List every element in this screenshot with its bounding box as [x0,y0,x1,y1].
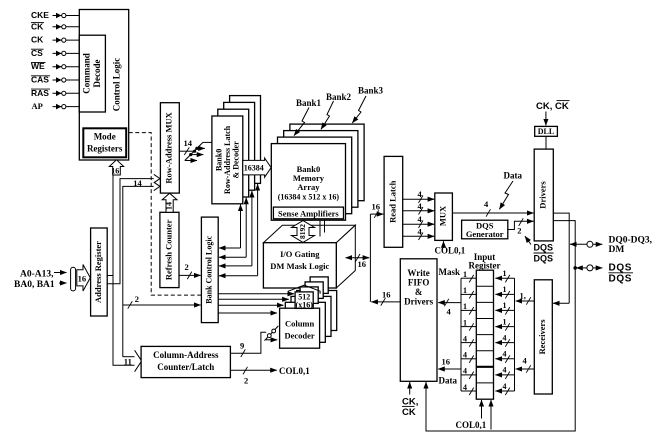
column decoder bank0 U13 [280,308,320,348]
svg-text:14: 14 [184,138,193,148]
label DQ0-DQ3 DM [609,236,653,255]
svg-text:4: 4 [503,366,507,375]
svg-text:4: 4 [463,334,467,343]
junction dqs [573,266,577,270]
wire riser A to counter [113,276,135,366]
svg-text:1: 1 [503,269,507,278]
pin WE# [31,61,46,71]
svg-text:4: 4 [463,383,467,392]
svg-text:Receivers: Receivers [537,319,547,355]
svg-text:MUX: MUX [438,205,448,226]
wire register in 1 [495,269,514,282]
svg-text:CK,: CK, [402,396,418,407]
svg-text:1: 1 [463,270,467,279]
wire read latch out 3 [403,214,435,228]
bus pill symbol [71,267,76,291]
svg-text:Bank1: Bank1 [296,98,322,108]
wire CK# [53,26,80,28]
pin CS# [31,48,44,58]
wire register in 7 [495,366,514,379]
buffer CAS# [56,77,66,83]
svg-text:Data: Data [439,376,458,386]
svg-text:16: 16 [111,167,119,176]
command decode U2 [79,35,105,112]
wire COL01 into register 1 [481,400,483,419]
bank control logic U8 [201,217,218,323]
column decoder stack bank3 [297,291,337,331]
svg-text:(x16): (x16) [296,300,314,309]
svg-text:1: 1 [463,318,467,327]
label DQS pair pads [609,263,634,285]
svg-text:Drivers: Drivers [404,297,433,307]
svg-text:1,: 1, [520,291,526,301]
label Data [504,171,523,181]
memory stack bank3 [290,124,364,201]
svg-text:Column: Column [285,319,315,329]
buffer CKE [56,13,66,19]
wire BA0 BA1 [59,282,67,284]
dll U18 [535,126,558,136]
svg-text:CK: CK [402,407,416,418]
write fifo U20 [400,259,437,382]
node chevron row mux in 2 [154,182,160,190]
label DQS pair drivers [534,243,554,264]
svg-text:1: 1 [463,286,467,295]
wire dll to drivers [545,136,547,149]
wire read latch out 1 [403,189,435,203]
wire data vertical [369,214,371,302]
svg-text:2: 2 [244,376,248,386]
wire column select 1 [218,293,294,295]
wire fanout branch 4 [185,160,197,162]
wire COL01 into mux [443,241,445,248]
wire column select 4 [218,312,277,314]
reg512 stack bank3 [310,277,328,294]
pin CAS# [31,75,50,85]
wire register in 3 [495,301,514,314]
svg-text:16: 16 [382,290,391,300]
svg-text:Mask: Mask [439,267,461,277]
svg-text:Array: Array [297,182,320,192]
svg-text:DM Mask Logic: DM Mask Logic [270,261,329,271]
wire 14 mux to row latch [179,138,194,155]
svg-text:2: 2 [185,262,189,272]
svg-text:14: 14 [165,202,174,210]
wire bank select 4 [219,184,258,276]
wire register out 2 [461,286,476,298]
wire riser C to counter [123,356,135,358]
svg-text:DQS: DQS [609,273,632,284]
label Data fifo [439,376,458,386]
row latch stack bank2 [224,102,255,190]
svg-text:DLL: DLL [538,127,554,136]
column address counter U7 [141,346,230,377]
svg-text:Counter/Latch: Counter/Latch [157,362,214,372]
wire riser C to row mux [123,186,154,356]
wire column select 2 [218,298,289,300]
label CK CK# top [536,101,570,112]
wire column select 3 [218,304,283,306]
wire 1 receivers to register [516,291,535,305]
svg-text:I/O Gating: I/O Gating [280,249,320,259]
wire register out 6 [461,351,476,363]
svg-text:COL0,1: COL0,1 [279,366,310,376]
wire register in 4 [495,317,514,330]
label Bank3 [358,86,384,96]
wire register in 6 [495,350,514,363]
wire address bus riser A [107,175,113,276]
svg-text:& Decoder: & Decoder [232,141,241,179]
drivers U19 [534,149,553,241]
pin AP [32,101,43,111]
wire 16 from write fifo [371,290,400,306]
node chevron counter in [135,350,142,371]
svg-text:2: 2 [517,226,521,236]
row latch stack bank1 [218,109,249,197]
buffer CK# [56,24,66,30]
buffer AP [56,104,66,110]
svg-text:Decode: Decode [92,60,102,88]
pad DQ [587,241,593,247]
bus arrow 8192 [292,221,315,243]
svg-text:1: 1 [503,301,507,310]
mux U16 [435,193,453,240]
wire register in 5 [495,333,514,346]
wire 4 receivers to register [516,355,535,372]
svg-text:8192: 8192 [298,224,307,239]
wire 9 counter to column decoder [230,332,266,357]
junction dots fanout [189,147,198,156]
wire dq pad right [593,243,602,245]
svg-text:Generator: Generator [466,229,504,239]
wire read latch out 4 [403,226,435,240]
svg-text:Drivers: Drivers [538,181,548,209]
svg-text:Data: Data [504,171,523,181]
svg-text:AP: AP [32,101,43,111]
memory array bank0 U10 [271,144,345,221]
wire dqs pad left [576,267,587,269]
wire CK [53,39,80,41]
wire 16 io gating data bus [346,254,370,269]
svg-text:A0-A13,: A0-A13, [20,270,54,280]
node COL01 [279,366,310,376]
reg512 bank0 U14 [295,292,313,310]
wire register out 1 [461,270,476,282]
buffer CK [56,37,66,43]
wire CAS# [53,79,80,81]
buffer CS# [56,51,66,57]
wire 4 mask into fifo [438,299,461,317]
svg-text:1: 1 [503,285,507,294]
wire register out 8 [461,383,476,395]
label COL01 bottom [456,420,487,430]
read latch U15 [384,156,403,247]
svg-text:Register: Register [469,261,501,271]
wire register in 2 [495,285,514,298]
wire ck into fifo [409,382,411,394]
wire 2 to bank control [123,294,201,309]
svg-text:BA0, BA1: BA0, BA1 [14,280,55,290]
wire read latch out 2 [403,201,435,215]
pin CK [31,35,44,45]
label CK CK# bottom [402,396,418,418]
pin CK# [31,21,44,31]
label Mask [439,267,461,277]
wire AP [53,106,80,108]
column decoder stack bank2 [291,296,331,336]
wire 16 to read latch [370,202,383,218]
wire register out 3 [461,302,476,314]
input register U21 [476,270,493,399]
svg-text:CKE: CKE [31,10,49,20]
wire drivers to dqs pad [426,221,575,431]
node chevron row mux in 1 [154,174,160,182]
wire register out 5 [461,334,476,346]
wire ck to dll [545,112,547,126]
svg-text:Registers: Registers [87,144,123,154]
label 14 address bus [133,178,142,188]
svg-text:&: & [415,287,423,297]
svg-text:4: 4 [503,333,507,342]
wire bank select 1 [219,205,241,249]
wire drivers to dq pad [553,213,569,303]
wire dqs pad right [593,267,602,269]
svg-text:16: 16 [78,273,87,283]
svg-text:FIFO: FIFO [408,278,430,288]
svg-text:11: 11 [124,357,132,367]
svg-text:4: 4 [503,350,507,359]
refresh counter U5 [160,212,179,287]
svg-text:Command: Command [82,53,92,94]
chevron arrow up [288,285,320,294]
wire fanout diagonal [185,142,203,160]
wire fanout branch 2 [197,147,205,149]
pad DQS [587,265,593,271]
address register U4 [91,228,108,316]
svg-text:Write: Write [407,268,429,278]
wire CS# [53,52,80,54]
wire register in 8 [495,382,514,395]
svg-text:CK: CK [31,35,44,45]
mode registers U3 [83,128,126,157]
wire stubs sense amp [320,221,325,237]
bus arrow 16384 [243,158,271,177]
bus arrow 16 into address register [77,265,91,292]
svg-text:DQS: DQS [534,254,554,264]
svg-text:(16384 x 512 x 16): (16384 x 512 x 16) [278,193,340,202]
wire diagonal with circles [265,326,279,341]
wire 2 refresh to bank control [179,262,201,279]
wire fanout branch 1 [203,141,212,143]
wire 2 counter to COL01 [230,367,276,386]
wire fanout branch 3 [191,154,204,156]
label Bank1 [296,98,322,108]
svg-text:4: 4 [463,367,467,376]
svg-text:16: 16 [372,202,381,212]
svg-text:Read Latch: Read Latch [387,180,397,223]
svg-text:9: 9 [240,341,244,351]
wire A0-A13 [54,272,67,274]
wire register out 7 [461,367,476,379]
row latch bank0 U9 [212,116,243,204]
io gating top face [263,225,355,243]
svg-text:CK, CK: CK, CK [536,101,569,112]
buffer WE# [56,64,66,70]
svg-text:Control Logic: Control Logic [112,58,122,112]
wire COL01 into register 2 [490,400,492,430]
svg-text:Decoder: Decoder [284,331,314,341]
svg-text:COL0,1: COL0,1 [456,420,487,430]
svg-text:4: 4 [463,351,467,360]
input register label [469,252,501,271]
wire dq into receivers [553,302,569,304]
wire dq pad left [570,243,587,245]
svg-text:1: 1 [503,317,507,326]
bus arrow 16 into mode registers [109,160,123,176]
bus arrow 14 refresh to mux [162,193,177,212]
svg-text:Address Register: Address Register [93,241,103,303]
row address mux U6 [160,103,179,193]
pointer Bank2 [321,101,334,129]
io gating U12 [263,243,336,288]
svg-text:Bank2: Bank2 [326,92,352,102]
label Bank2 [326,92,352,102]
svg-text:16: 16 [442,357,451,367]
dqs generator U17 [462,220,508,239]
pin RAS# [31,88,50,98]
wire WE# [53,66,80,68]
pointer Data [499,181,513,209]
label COL01 mux [435,245,466,255]
row latch stack bank3 [230,96,261,184]
svg-text:16384: 16384 [244,164,264,173]
svg-text:DQS: DQS [534,243,554,253]
control logic U1 [79,10,128,161]
svg-text:4: 4 [503,382,507,391]
svg-text:14: 14 [133,178,142,188]
wire register in bus right [514,278,516,391]
wire bank select 3 [219,191,252,266]
sense amplifiers U11 [273,207,343,219]
svg-text:DQS: DQS [609,263,632,274]
buffer RAS# [56,91,66,97]
reg512 stack bank1 [300,287,318,304]
dashed control wire to bank control logic [129,133,202,296]
svg-text:2: 2 [135,294,139,304]
svg-text:Column-Address: Column-Address [153,350,219,360]
wire register out bus left [460,278,462,391]
svg-text:Bank Control Logic: Bank Control Logic [205,235,214,303]
svg-text:Row-Address MUX: Row-Address MUX [164,111,174,183]
pointer Bank1 [294,108,309,136]
pin A0-A13 BA0 BA1 [14,270,55,291]
wire register out 4 [461,318,476,330]
io gating right face [336,225,355,288]
svg-text:1: 1 [463,302,467,311]
wire RAS# [53,92,80,94]
label 11 [124,357,132,367]
wire arrow into column decoder [266,339,277,341]
receivers U22 [534,280,552,394]
wire CKE [53,15,80,17]
wire address bus riser B [107,179,154,284]
wire bank select 2 [219,198,246,258]
pointer DQS label [525,236,531,244]
svg-text:Sense Amplifiers: Sense Amplifiers [278,208,339,218]
reg512 stack bank2 [305,282,323,299]
svg-text:Bank3: Bank3 [358,86,384,96]
svg-text:Mode: Mode [94,132,116,142]
wire 2 dqs gen to drivers [508,218,534,235]
pin CKE [31,10,49,20]
wire 16 data into fifo [438,357,461,370]
svg-text:16: 16 [358,259,367,269]
column decoder stack bank1 [285,302,325,342]
svg-text:DM: DM [609,245,625,255]
pointer Bank3 [352,96,366,123]
memory stack bank2 [284,131,358,208]
wire 4 mux to drivers [452,199,533,217]
svg-text:COL0,1: COL0,1 [435,245,466,255]
svg-text:Refresh Counter: Refresh Counter [163,219,173,280]
memory stack bank1 [278,137,352,214]
